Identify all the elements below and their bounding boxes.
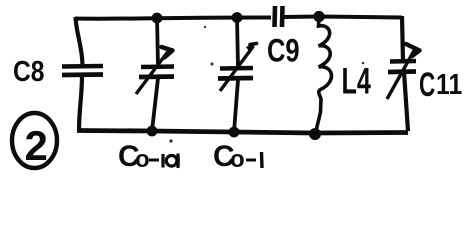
capacitor C11 top plate	[390, 59, 416, 64]
junction dot top A	[152, 13, 163, 24]
wire top bus left segment	[75, 17, 271, 18]
capacitor C0-1a arrow shaft	[136, 52, 168, 95]
wire right side bottom	[404, 72, 408, 131]
capacitor C8 top plate	[62, 64, 103, 69]
capacitor C0-1 arrow shaft	[220, 46, 254, 91]
capacitor C0-1a arrowhead barb	[165, 51, 173, 58]
wire top bus right segment	[282, 17, 402, 18]
capacitor C0-1a arrowhead roof	[162, 47, 173, 51]
capacitor C0-1a top plate	[141, 64, 174, 69]
capacitor C9 right plate	[280, 6, 285, 27]
svg-text:o: o	[230, 146, 245, 172]
wire bottom bus	[77, 131, 408, 134]
capacitor C0-1a stem top	[157, 17, 158, 66]
label C0-1 : dash	[246, 159, 256, 162]
label C0-1a : dash	[149, 159, 159, 162]
svg-text:C9: C9	[267, 34, 300, 70]
inductor L4 coil	[316, 17, 331, 131]
capacitor C8 bottom plate	[62, 72, 103, 77]
label C0-1a : a bowl	[166, 156, 177, 167]
wire left side bottom	[79, 76, 82, 131]
junction dot top C	[313, 11, 324, 22]
svg-text:C8: C8	[13, 55, 45, 87]
capacitor C0-1 stem top	[237, 17, 238, 67]
capacitor C11 arrow shaft	[387, 48, 416, 99]
junction dot bottom B	[229, 127, 240, 138]
label C0-1a : a stem	[176, 154, 180, 169]
capacitor C0-1 arrowhead flag	[250, 44, 257, 45]
capacitor C9 left plate	[272, 6, 277, 27]
junction dot bottom C	[309, 128, 321, 140]
capacitor C0-1 stem bottom	[234, 80, 238, 132]
capacitor C0-1 bottom plate	[218, 76, 253, 81]
capacitor C11 arrowhead roof	[406, 44, 420, 51]
speck above label a	[169, 139, 172, 142]
capacitor C11 bottom plate	[388, 69, 416, 74]
svg-text:o: o	[135, 146, 150, 172]
label C0-1 : 1	[260, 152, 264, 168]
wire left side top	[76, 17, 83, 65]
label C0-1a : i	[161, 154, 164, 168]
figure number circle	[12, 113, 57, 168]
capacitor C0-1a bottom plate	[139, 74, 174, 79]
junction dot bottom A	[147, 126, 158, 137]
speck near C0-1 plate	[211, 63, 214, 66]
capacitor C0-1 arrowhead	[246, 42, 256, 54]
speck near L4	[362, 62, 365, 65]
svg-text:L4: L4	[342, 61, 372, 102]
capacitor C0-1 top plate	[220, 66, 253, 71]
svg-text:C: C	[419, 66, 435, 104]
junction dot top B	[232, 12, 243, 23]
speck on top bus	[204, 26, 206, 28]
svg-text:1: 1	[449, 68, 463, 100]
capacitor C11 arrowhead barb	[413, 51, 420, 57]
wire right side top	[402, 16, 403, 61]
svg-text:2: 2	[25, 122, 48, 169]
capacitor C0-1a stem bottom	[152, 78, 158, 131]
